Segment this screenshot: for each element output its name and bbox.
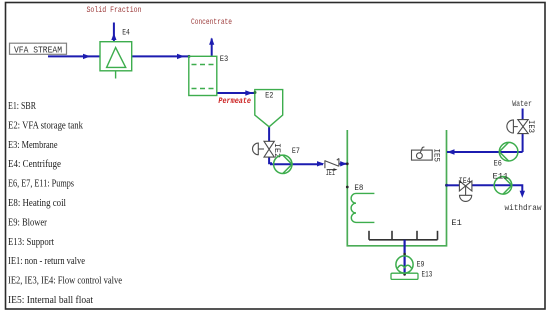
arrow permeate <box>245 90 253 95</box>
flow arrow under IE1 <box>327 169 334 171</box>
svg-text:Permeate: Permeate <box>218 97 251 106</box>
wire: solid fraction up from E4 <box>113 23 115 42</box>
wire: water feed into tank <box>447 151 523 153</box>
node on blower line <box>403 253 406 256</box>
svg-text:E9: E9 <box>417 261 425 269</box>
blower E9 <box>396 256 413 273</box>
svg-text:IE4: IE4 <box>459 178 471 186</box>
node withdraw junction <box>445 184 448 187</box>
svg-text:E2: VFA storage tank: E2: VFA storage tank <box>8 120 83 131</box>
wire: sparger to blower E9 <box>404 240 406 274</box>
svg-text:IE5: Internal ball float: IE5: Internal ball float <box>8 295 93 306</box>
arrow into tank <box>340 161 347 166</box>
svg-text:IE3: IE3 <box>526 120 534 133</box>
node on wall at E8 <box>346 186 349 189</box>
arrow solid fraction <box>111 33 116 40</box>
arrow concentrate <box>209 38 214 45</box>
control valve IE4 <box>459 181 472 202</box>
wire: IE1 to tank wall <box>340 163 347 165</box>
svg-text:E3: Membrane: E3: Membrane <box>8 140 58 151</box>
sparger <box>369 231 438 240</box>
svg-text:VFA STREAM: VFA STREAM <box>14 45 62 55</box>
node on wall at feed <box>346 162 349 165</box>
pump E6 <box>499 142 518 161</box>
svg-text:Concentrate: Concentrate <box>191 18 232 27</box>
svg-text:E11: E11 <box>493 173 509 181</box>
wire: water vertical <box>522 109 524 120</box>
svg-text:Solid Fraction: Solid Fraction <box>87 6 142 15</box>
wire: permeate E3 to E2 <box>217 92 255 94</box>
node at E2 inlet <box>254 91 257 94</box>
svg-text:E6: E6 <box>494 161 502 169</box>
VFA STREAM box <box>10 43 67 54</box>
svg-text:E13: Support: E13: Support <box>8 237 54 248</box>
svg-text:Water: Water <box>512 100 532 109</box>
svg-text:E13: E13 <box>422 272 433 280</box>
wire: E2 down to valve IE2 <box>268 127 270 141</box>
svg-text:IE2, IE3, IE4: Flow control va: IE2, IE3, IE4: Flow control valve <box>8 276 122 287</box>
arrow on VFA feed <box>83 54 91 59</box>
arrow before IE1 <box>317 161 324 166</box>
svg-text:E8: Heating coil: E8: Heating coil <box>8 198 66 209</box>
wire: concentrate up from E3 <box>211 39 213 56</box>
svg-text:IE1: IE1 <box>326 170 335 178</box>
svg-text:E8: E8 <box>354 185 363 193</box>
svg-text:E3: E3 <box>220 56 229 64</box>
pump E11 <box>494 177 512 195</box>
arrow into E3 <box>177 54 185 59</box>
centrifuge E4 <box>100 42 132 79</box>
node at E3 inlet <box>188 55 191 58</box>
svg-text:E4: E4 <box>122 30 130 38</box>
svg-text:IE5: IE5 <box>432 149 440 163</box>
support E13 <box>391 273 418 279</box>
svg-text:E9: Blower: E9: Blower <box>8 217 48 228</box>
svg-text:withdraw: withdraw <box>505 204 542 213</box>
svg-text:E1: E1 <box>451 220 462 228</box>
svg-text:IE1: non - return valve: IE1: non - return valve <box>8 256 85 267</box>
pump E7 <box>274 155 292 173</box>
heating coil E8 <box>351 193 374 222</box>
arrow into tank wall <box>447 149 455 154</box>
wire: valve IE2 to pump E7 corner <box>269 157 272 163</box>
control valve IE3 <box>507 120 528 134</box>
membrane E3 <box>189 56 217 95</box>
wire: VFA feed to E4 <box>48 55 100 57</box>
legend list <box>8 101 122 306</box>
svg-text:E6, E7, E11: Pumps: E6, E7, E11: Pumps <box>8 179 74 190</box>
tank E1 <box>347 130 446 246</box>
svg-text:E1: SBR: E1: SBR <box>8 101 36 112</box>
storage tank E2 <box>255 90 283 127</box>
wire: pump E7 to IE1 <box>270 163 323 165</box>
arrow withdraw down <box>520 191 525 198</box>
control valve IE2 <box>253 141 275 157</box>
wire: E4 to E3 <box>132 55 189 57</box>
ball float IE5 <box>412 147 433 160</box>
check valve IE1 <box>325 158 339 168</box>
svg-text:E7: E7 <box>292 148 300 156</box>
wire: withdraw line <box>447 184 460 186</box>
svg-text:E2: E2 <box>265 93 274 101</box>
svg-text:E4: Centrifuge: E4: Centrifuge <box>8 159 61 170</box>
